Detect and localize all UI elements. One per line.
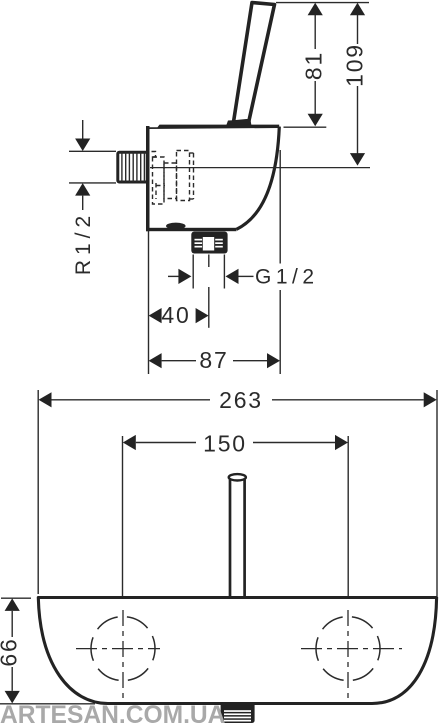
reference line body top (81) bbox=[284, 126, 327, 128]
front view hull bbox=[38, 598, 436, 704]
outlet centerline bbox=[208, 255, 210, 328]
body top edge bbox=[146, 125, 279, 129]
svg-text:40: 40 bbox=[161, 302, 190, 328]
cartridge dashed outline bbox=[152, 151, 194, 205]
dimension 66 bbox=[0, 598, 95, 704]
body left edge bbox=[146, 126, 150, 231]
right extension line (body widest) bbox=[279, 150, 281, 374]
outlet edge extension lines bbox=[193, 255, 224, 289]
svg-text:R1/2: R1/2 bbox=[72, 211, 95, 275]
dimension R1/2 bbox=[69, 120, 116, 275]
dimension G1/2 bbox=[168, 266, 319, 289]
lever handle bbox=[234, 3, 275, 123]
dimension 87 bbox=[149, 347, 280, 373]
top reference line (handle top) bbox=[276, 2, 369, 4]
handle base bbox=[226, 120, 252, 127]
svg-text:G1/2: G1/2 bbox=[255, 266, 319, 289]
dimension 150 bbox=[123, 430, 349, 610]
svg-text:66: 66 bbox=[0, 637, 22, 666]
spout pipe bbox=[229, 474, 246, 597]
body foot pad bbox=[166, 223, 186, 230]
dimension 109 bbox=[342, 3, 368, 166]
dimension 81 bbox=[301, 3, 327, 126]
svg-text:150: 150 bbox=[203, 430, 247, 456]
svg-text:263: 263 bbox=[219, 387, 263, 413]
dimension 40 bbox=[149, 302, 209, 328]
svg-text:81: 81 bbox=[301, 51, 327, 80]
dimension 263 bbox=[38, 387, 437, 596]
left extension line (body face) bbox=[148, 231, 150, 375]
body bottom edge bbox=[146, 228, 237, 231]
outlet thread block bbox=[191, 232, 227, 254]
mounting hole right bbox=[301, 610, 402, 700]
inlet centerline bbox=[150, 167, 370, 169]
body right curve bbox=[237, 127, 280, 230]
svg-text:87: 87 bbox=[199, 347, 228, 373]
inlet thread connector bbox=[118, 152, 148, 182]
svg-text:ARTESAN.COM.UA: ARTESAN.COM.UA bbox=[0, 702, 226, 726]
mounting hole left bbox=[76, 610, 160, 700]
svg-text:109: 109 bbox=[342, 43, 368, 87]
drain outlet thread bbox=[221, 703, 255, 724]
